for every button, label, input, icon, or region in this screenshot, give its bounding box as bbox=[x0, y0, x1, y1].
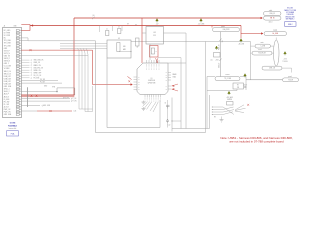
wire red row y=84.5 to chip U1 bbox=[93, 84, 132, 86]
net label WAKE_ON bbox=[21, 64, 29, 66]
vertical conn P2 bbox=[274, 40, 280, 66]
wire y=90.5 bbox=[207, 90, 237, 92]
U1 left pin 3 bbox=[134, 81, 138, 83]
net pill TOUCH_INT bbox=[252, 51, 272, 55]
net pill USB_PWR bbox=[211, 26, 213, 28]
connector J1 bbox=[3, 28, 22, 118]
wire fan below U1 bbox=[143, 102, 159, 112]
red X splice bbox=[247, 104, 249, 106]
power flag +B_USB bbox=[238, 39, 244, 46]
svg-text:USB: USB bbox=[14, 26, 17, 28]
wire red vertical x=157.5 short bbox=[157, 61, 159, 64]
wire vertical x=88 bbox=[87, 55, 89, 112]
svg-text:SSRX_P: SSRX_P bbox=[4, 58, 10, 60]
svg-text:J1: J1 bbox=[4, 26, 6, 28]
net pill USB_5V bbox=[264, 12, 282, 16]
splice row 3 bbox=[212, 111, 223, 113]
U1 bottom pin 5 bbox=[153, 95, 155, 98]
svg-text:PWR_OK: PWR_OK bbox=[4, 109, 12, 111]
U1 top pin 4 bbox=[153, 60, 155, 63]
svg-text:❮ P_ON: ❮ P_ON bbox=[71, 101, 76, 103]
gnd stem x=27.5 bbox=[27, 87, 29, 107]
svg-text:GND_SS: GND_SS bbox=[4, 55, 10, 57]
net pill C_USB bbox=[255, 44, 271, 48]
U1 bottom pin 6 bbox=[155, 95, 157, 98]
wire red bus A y=18 bbox=[74, 17, 261, 19]
svg-text:SHLD_1: SHLD_1 bbox=[4, 89, 10, 91]
wire y=121 stub bbox=[172, 120, 181, 122]
svg-text:SENSE: SENSE bbox=[227, 99, 232, 101]
svg-text:R9: R9 bbox=[214, 117, 216, 119]
svg-text:U3: U3 bbox=[118, 38, 120, 40]
svg-text:ESD: ESD bbox=[123, 46, 126, 48]
wire vertical x=82 bbox=[81, 52, 83, 110]
svg-text:❮: ❮ bbox=[31, 62, 32, 64]
svg-text:TOUCH_INT: TOUCH_INT bbox=[258, 53, 266, 55]
wire vertical x=107 loop inner bbox=[106, 58, 108, 128]
svg-text:QFN36 HUB: QFN36 HUB bbox=[148, 83, 156, 85]
wire vertical x=220.5 USB_PWR to TP_CONN bbox=[220, 32, 222, 77]
svg-text:TP1_USB: TP1_USB bbox=[4, 45, 11, 47]
svg-text:SPME_OFF: SPME_OFF bbox=[34, 72, 42, 74]
svg-text:TP3_USB: TP3_USB bbox=[4, 40, 11, 42]
svg-text:TP48: TP48 bbox=[52, 86, 55, 88]
U1 left pin 4 bbox=[134, 84, 138, 86]
svg-text:+5V_USB: +5V_USB bbox=[198, 24, 205, 26]
svg-text:ID_SNS: ID_SNS bbox=[4, 99, 10, 101]
U1 top pin 2 bbox=[148, 60, 150, 63]
wire y=128.5 bbox=[172, 128, 210, 130]
U1 left pin 1 bbox=[134, 76, 138, 78]
svg-text:USB_D2P: USB_D2P bbox=[4, 81, 11, 83]
wire vertical x=205.5 bbox=[205, 42, 207, 133]
svg-text:USB HUB: USB HUB bbox=[287, 14, 294, 16]
U1 right pin 2 bbox=[168, 74, 171, 76]
wire y=79.8 to touch pill bbox=[246, 79, 283, 81]
svg-text:3V3: 3V3 bbox=[153, 35, 156, 37]
U1 top pin 5 bbox=[156, 60, 158, 63]
svg-text:GND: GND bbox=[44, 86, 47, 88]
svg-text:CC1_USB: CC1_USB bbox=[4, 66, 11, 68]
U1 left pin 2 bbox=[134, 79, 138, 81]
svg-text:❮: ❮ bbox=[31, 60, 32, 62]
wire loop top y=41.5 bbox=[131, 41, 251, 43]
svg-text:❮: ❮ bbox=[31, 67, 32, 69]
svg-text:power: power bbox=[221, 26, 225, 28]
net pill TOUCH bbox=[283, 78, 299, 82]
svg-text:PL_SW: PL_SW bbox=[4, 104, 10, 106]
svg-text:GND_USB: GND_USB bbox=[4, 114, 11, 116]
net pill B+_USB bbox=[264, 32, 287, 36]
U1 left pin 6 bbox=[134, 89, 138, 91]
svg-text:sensor: sensor bbox=[225, 74, 230, 76]
svg-text:GND_2: GND_2 bbox=[4, 63, 9, 65]
resistor R3 bbox=[136, 38, 140, 46]
gray flag near x=172 bbox=[166, 119, 169, 121]
wire vertical x=209.5 bbox=[209, 95, 211, 129]
svg-text:harness link: harness link bbox=[9, 128, 17, 130]
svg-text:TP_CONN: TP_CONN bbox=[224, 78, 231, 80]
svg-text:PWR_ON: PWR_ON bbox=[4, 112, 11, 114]
wire y=57.6 bbox=[158, 57, 181, 59]
wire loop bottom y=132.5 bbox=[96, 132, 206, 134]
splice row 4 bbox=[212, 114, 223, 116]
wire y=46 to U3 bbox=[60, 45, 107, 47]
wire vertical x=79 bbox=[78, 51, 80, 110]
capacitor C2 bbox=[112, 26, 114, 32]
net label USB_SPD_OK bbox=[21, 67, 29, 69]
svg-text:USB_PWR: USB_PWR bbox=[223, 29, 230, 31]
U1 bottom pin 8 bbox=[159, 95, 161, 98]
svg-text:FLEXIBLE: FLEXIBLE bbox=[8, 125, 17, 127]
wire red bus B (5V) y=25.5 bbox=[30, 25, 241, 27]
wire red vertical x=92.5 bbox=[92, 50, 94, 84]
svg-text:USB1_OK: USB1_OK bbox=[34, 62, 41, 64]
wire row y=111 gray part bbox=[21, 110, 37, 112]
svg-text:+3V3: +3V3 bbox=[215, 59, 219, 61]
USB hub U1 bbox=[137, 63, 168, 95]
svg-text:USB_5V: USB_5V bbox=[269, 13, 275, 15]
svg-text:USB2514B: USB2514B bbox=[148, 80, 155, 82]
net pill VB_IN bbox=[264, 16, 282, 20]
wire row PD_SW bbox=[21, 80, 58, 82]
svg-text:VB_IN: VB_IN bbox=[270, 18, 274, 20]
svg-text:❮: ❮ bbox=[31, 65, 32, 67]
svg-text:+B_USB: +B_USB bbox=[238, 44, 244, 46]
svg-text:PD_SW: PD_SW bbox=[40, 79, 46, 81]
svg-text:C1: C1 bbox=[106, 29, 108, 31]
svg-text:are not included in 07-788 com: are not included in 07-788 complete boar… bbox=[229, 139, 284, 143]
red protection box D1 bbox=[150, 46, 159, 58]
power flag +3V3_AUX bbox=[228, 91, 231, 95]
svg-text:SHLD_2: SHLD_2 bbox=[4, 91, 10, 93]
wire red row y=111 bbox=[37, 110, 72, 112]
wire vertical x=181 bbox=[180, 60, 182, 129]
wire row GND_USB bbox=[21, 105, 40, 107]
wire merge y=111.5 bbox=[85, 111, 93, 113]
net label PD_SNS bbox=[21, 77, 29, 79]
svg-text:C9: C9 bbox=[165, 103, 167, 105]
svg-text:USB_D1N: USB_D1N bbox=[4, 78, 11, 80]
wire y=48.5 to U3 bbox=[60, 48, 107, 50]
svg-text:2R: 2R bbox=[135, 25, 137, 27]
U1 bottom pin 1 bbox=[144, 95, 146, 98]
U1 left pin 5 bbox=[134, 86, 138, 88]
svg-text:USB_CN: USB_CN bbox=[269, 68, 275, 70]
U1 right pin 6 bbox=[168, 88, 171, 90]
svg-text:C_USB: C_USB bbox=[260, 46, 265, 48]
wire fan right bbox=[235, 105, 246, 113]
svg-text:SPME_ON: SPME_ON bbox=[34, 70, 41, 72]
power flag +5V_T bbox=[244, 74, 247, 78]
splice row 2 bbox=[212, 109, 223, 111]
svg-text:GND_USB_OK: GND_USB_OK bbox=[34, 60, 44, 62]
svg-text:GND_USB: GND_USB bbox=[4, 86, 11, 88]
wire vertical x=160 bbox=[159, 100, 161, 128]
U1 right pin 4 bbox=[168, 79, 171, 81]
bus entries bbox=[78, 49, 89, 55]
U1 bottom pin 2 bbox=[146, 95, 148, 98]
wire vertical x=95.5 loop outer bbox=[95, 41, 97, 133]
wire weave X bbox=[223, 107, 234, 115]
U1 bottom pin 7 bbox=[157, 95, 159, 98]
wire vertical x=92.5 gray tail bbox=[92, 86, 94, 112]
wire y=63 right of U1 bbox=[168, 62, 186, 64]
svg-text:SSTX_N: SSTX_N bbox=[4, 53, 10, 55]
svg-text:VCONN: VCONN bbox=[4, 68, 10, 70]
capacitor C3 stub bbox=[121, 26, 123, 32]
net pill USB_PWR bbox=[213, 28, 240, 32]
U1 bottom pin 3 bbox=[148, 95, 150, 98]
svg-text:SBU2_US: SBU2_US bbox=[4, 73, 11, 75]
svg-text:+3V3: +3V3 bbox=[283, 59, 287, 61]
svg-text:7R: 7R bbox=[127, 24, 129, 26]
U1 right pin 3 bbox=[168, 77, 171, 79]
svg-text:+5V: +5V bbox=[156, 24, 159, 26]
svg-text:FLT: FLT bbox=[237, 85, 239, 87]
wire vertical x=250.5 bbox=[250, 42, 252, 80]
svg-text:5V_PWR: 5V_PWR bbox=[4, 33, 11, 35]
svg-text:USB_D2N: USB_D2N bbox=[4, 84, 11, 86]
svg-text:5V_PWR: 5V_PWR bbox=[4, 35, 11, 37]
svg-text:2V8: 2V8 bbox=[237, 87, 240, 89]
svg-text:supply: supply bbox=[273, 30, 277, 32]
junction bbox=[56, 91, 57, 92]
svg-text:SD_CD_OK: SD_CD_OK bbox=[34, 75, 42, 77]
ground GND2 below U1 bbox=[142, 107, 146, 111]
svg-text:PWR_5V: PWR_5V bbox=[219, 44, 221, 50]
net label USB1_OK bbox=[21, 62, 29, 64]
net label SPME_OFF bbox=[21, 72, 29, 74]
U5 pin circle bbox=[244, 86, 245, 88]
svg-text:U_B: U_B bbox=[74, 111, 77, 113]
wire tap to C_USB bbox=[251, 45, 256, 47]
svg-text:B+_USB: B+_USB bbox=[273, 33, 278, 35]
svg-text:C2: C2 bbox=[118, 27, 120, 29]
net label SPME_ON bbox=[21, 69, 29, 71]
svg-text:07-788: 07-788 bbox=[10, 123, 16, 125]
svg-text:SSTX_P: SSTX_P bbox=[4, 50, 10, 52]
wire red thick y=95.5 bbox=[21, 94, 74, 96]
power flag +5V_USB bbox=[198, 19, 205, 26]
U1 right pin 1 bbox=[168, 72, 171, 74]
wire tap to TOUCH_INT bbox=[251, 52, 253, 54]
net pill USB_CN bbox=[262, 66, 282, 70]
svg-text:USB_D1P: USB_D1P bbox=[4, 76, 11, 78]
svg-text:USB-2: USB-2 bbox=[288, 24, 293, 26]
power flag +3V3_T bbox=[284, 52, 287, 56]
net label SD_CD_OK bbox=[21, 74, 29, 76]
svg-text:SNS_5V: SNS_5V bbox=[219, 63, 221, 68]
capacitor C9 bbox=[166, 105, 170, 106]
red X marks chip right bbox=[173, 85, 175, 87]
net pill TP_CONN bbox=[215, 77, 240, 81]
wire red row y=50 bbox=[21, 49, 92, 51]
wire row y=91.6 bbox=[21, 91, 57, 93]
wire red vertical x=142 bbox=[141, 18, 143, 63]
wire vertical x=167.5 bbox=[167, 100, 169, 128]
svg-text:NC_GND: NC_GND bbox=[4, 30, 11, 32]
svg-text:TOUCH: TOUCH bbox=[288, 79, 293, 81]
U1 bottom pin 4 bbox=[151, 95, 153, 98]
wire red corner x=241 bbox=[241, 26, 262, 34]
splice row 1 bbox=[212, 106, 223, 108]
svg-text:SBU1_US: SBU1_US bbox=[4, 71, 11, 73]
wire bracket y=38-40.5 bbox=[21, 38, 28, 41]
ESD protection U3 bbox=[107, 40, 131, 58]
svg-text:C12: C12 bbox=[168, 125, 171, 127]
svg-text:PD_SNS: PD_SNS bbox=[34, 77, 40, 79]
svg-text:DRI-806 LINK: DRI-806 LINK bbox=[285, 16, 294, 18]
wire vertical x=172 bbox=[171, 98, 173, 132]
svg-text:❮ P_OK: ❮ P_OK bbox=[71, 98, 76, 100]
svg-text:❮ GND_USB: ❮ GND_USB bbox=[42, 105, 50, 107]
wire y=43.5 to U3 bbox=[60, 43, 107, 45]
wire merge y=109 bbox=[79, 108, 93, 110]
ground below splice bbox=[220, 117, 224, 123]
svg-text:TOUCH: TOUCH bbox=[283, 61, 288, 63]
U1 top pin 3 bbox=[151, 60, 153, 63]
touch block outline bbox=[206, 77, 208, 129]
U1 top pin 1 bbox=[146, 60, 148, 63]
wire row y=55.5 bbox=[21, 55, 88, 57]
U1 top pin 6 bbox=[158, 60, 160, 63]
svg-text:USB_SPD_OK: USB_SPD_OK bbox=[34, 67, 44, 69]
wire red bracket connector rows 1-2 bbox=[21, 25, 30, 31]
svg-text:BT-USB: BT-USB bbox=[287, 8, 292, 10]
svg-text:❮: ❮ bbox=[31, 75, 32, 77]
svg-text:TP2_USB: TP2_USB bbox=[4, 43, 11, 45]
svg-text:PD_SW: PD_SW bbox=[4, 101, 10, 103]
capacitor C1 bbox=[99, 26, 101, 33]
svg-text:PL_SW: PL_SW bbox=[40, 82, 45, 84]
wire vertical x=85 bbox=[84, 53, 86, 112]
resistor pack R8 bbox=[227, 102, 234, 106]
net label GND_USB_OK bbox=[21, 59, 29, 61]
wire y=33 box2 out bbox=[164, 32, 187, 34]
svg-text:❮: ❮ bbox=[31, 72, 32, 74]
wire row PWR_ON bbox=[21, 100, 70, 102]
wire loop y=127.5 bbox=[107, 127, 160, 129]
svg-text:❮: ❮ bbox=[31, 70, 32, 72]
ground GND1 below U1 bbox=[142, 101, 146, 105]
wire vertical x=186 bbox=[185, 33, 187, 129]
svg-text:SSRX_N: SSRX_N bbox=[4, 61, 10, 63]
wire y=40.5 to loop corner bbox=[28, 40, 96, 42]
power flag +3V3 flag bbox=[215, 46, 218, 50]
wire gnd corner to red bbox=[57, 88, 75, 95]
wire red diagonal into chip bbox=[127, 76, 131, 79]
svg-text:U1: U1 bbox=[151, 78, 153, 80]
U1 right pin 5 bbox=[168, 85, 171, 87]
svg-text:❮: ❮ bbox=[31, 77, 32, 79]
wire red vertical x=74 bbox=[73, 18, 75, 96]
filter U5 bbox=[233, 83, 244, 89]
power flag +5V on box2 bbox=[156, 19, 159, 26]
wire row PL_SW bbox=[21, 82, 62, 84]
wire row PWR_OK bbox=[21, 98, 70, 100]
